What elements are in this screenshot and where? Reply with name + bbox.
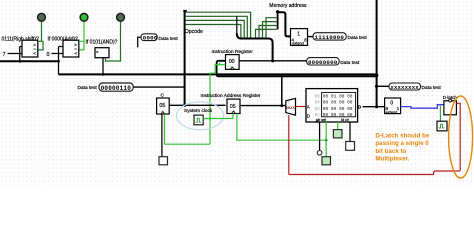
probe display 0000	[141, 34, 158, 42]
svg-text:D: D	[307, 113, 310, 118]
pin P4 (clr source square)	[346, 142, 355, 151]
highlight ellipse around system clock (light blue)	[177, 102, 224, 130]
wire comparator3 to bus	[102, 58, 104, 75]
node open ring on str wire	[317, 151, 322, 156]
wire RAM str pin down to ring	[319, 122, 321, 151]
bus opcode lower	[59, 73, 377, 75]
pin P2 (sel source, lit square)	[322, 157, 331, 165]
svg-text:MUX: MUX	[286, 105, 295, 110]
register IR	[226, 55, 240, 70]
wire opcode bit3	[186, 25, 241, 38]
svg-text:Opcode: Opcode	[185, 29, 203, 35]
wire RAM clr pin down	[349, 122, 351, 142]
svg-text:System clock: System clock	[184, 108, 213, 114]
node branch to probe xxxxxxxx	[375, 85, 378, 88]
node counter wire junction with opcode spine	[184, 104, 187, 107]
wire extender X2 to D-latch (blue, unknown value)	[401, 105, 444, 109]
LED L3 (off, dark)	[117, 13, 125, 21]
wire clock2 stub (green)	[439, 106, 441, 121]
svg-text:04: 04	[315, 101, 321, 106]
wire to probe xxxxxxxx	[377, 85, 389, 87]
wire comparator2 output loop (bright green)	[79, 41, 84, 50]
wire D-latch output feedback (red)	[289, 103, 460, 174]
svg-text:Data test: Data test	[348, 35, 368, 41]
wire 7 to comparator B	[8, 53, 23, 55]
wire staircase bit2	[263, 22, 277, 38]
wire counter C clock loop	[165, 114, 211, 144]
wire opcode bit0 (green bundle)	[186, 12, 251, 37]
svg-text:11110000: 11110000	[315, 34, 345, 41]
comparator U1	[22, 40, 38, 57]
node comparator1 bus junction	[18, 60, 21, 63]
svg-text:0: 0	[390, 101, 393, 107]
annotation text (orange)	[375, 133, 430, 163]
node MUX input junction	[280, 104, 283, 107]
node splitter bus to IR bus	[271, 59, 274, 62]
probe display 00000110	[99, 83, 133, 92]
svg-text:If 0101(AND)?: If 0101(AND)?	[86, 40, 118, 46]
svg-text:Data test: Data test	[159, 36, 179, 42]
splitter spine cap	[183, 10, 187, 12]
svg-text:o o o: o o o	[158, 109, 164, 112]
bus IR output to displays	[240, 60, 307, 62]
probe display 00000000	[307, 58, 340, 66]
svg-text:1: 1	[297, 32, 300, 38]
svg-text:00 00 00 00: 00 00 00 00	[323, 100, 353, 106]
counter IAR	[227, 99, 240, 113]
svg-text:str sel: str sel	[316, 118, 326, 122]
svg-text:0: 0	[47, 52, 50, 58]
wire comparator1 to LED1	[41, 22, 43, 42]
counter C	[157, 98, 170, 114]
bit extender X1 (4 to 8)	[291, 29, 308, 46]
comparator U3	[95, 48, 109, 58]
svg-text:ld clr: ld clr	[341, 118, 350, 122]
wire staircase bit1	[259, 26, 277, 38]
svg-text:extend: extend	[292, 42, 303, 46]
wire counter C bottom pin to pin square	[161, 114, 163, 157]
wire MUX output to RAM A (red)	[296, 106, 307, 108]
svg-text:passing a single 0: passing a single 0	[375, 140, 429, 147]
RAM M1	[306, 89, 358, 122]
svg-text:00000110: 00000110	[101, 85, 132, 92]
svg-text:xxxxxxxx: xxxxxxxx	[390, 84, 419, 91]
svg-text:Data test: Data test	[422, 85, 442, 91]
wire bus tap to comparator 1 A	[20, 47, 22, 62]
svg-text:Instruction Address Register: Instruction Address Register	[201, 93, 261, 99]
clock CLK2	[437, 121, 447, 131]
wire clock to IAR (bright green)	[203, 118, 233, 120]
LED L1 (off, dark)	[38, 13, 46, 21]
bit extender X2 (8 to 1)	[385, 98, 401, 114]
node comparator3 bus junction	[102, 73, 105, 76]
background canvas with grid dots	[0, 0, 474, 185]
wire opcode bit1	[186, 16, 248, 37]
bus splitter lower spine	[237, 33, 273, 61]
svg-text:bit back to: bit back to	[375, 148, 406, 155]
probe display 11110000	[313, 33, 346, 41]
wire MUX select (red, from D-latch feedback)	[288, 115, 290, 174]
node clock distribution junction	[209, 117, 212, 120]
multiplexer MUX1	[286, 98, 296, 115]
svg-text:Multiplexer.: Multiplexer.	[375, 156, 409, 163]
svg-text:o o: o o	[228, 64, 232, 68]
D-latch U4	[444, 99, 457, 115]
svg-text:00: 00	[315, 94, 321, 99]
svg-text:Data test: Data test	[340, 60, 360, 66]
wire probe0000 input	[138, 37, 141, 47]
svg-text:00000000: 00000000	[308, 59, 338, 66]
clock CLK1	[194, 115, 203, 125]
pin P3 (ld source, lit square)	[333, 130, 342, 138]
wire staircase bit0	[256, 29, 277, 37]
node splitter S2 top	[276, 10, 279, 13]
annotation ellipse (orange)	[449, 96, 473, 178]
svg-text:A: A	[307, 105, 310, 110]
wire IAR clock stub	[232, 114, 234, 119]
bus opcode upper	[0, 60, 59, 62]
wire bus riser to comparator2 A	[59, 47, 64, 75]
bus memory address to extender	[278, 12, 291, 36]
node lower bus right junction	[375, 74, 379, 78]
svg-text:05: 05	[159, 103, 165, 109]
svg-text:08: 08	[315, 107, 321, 112]
wire IAR output to MUX	[240, 105, 286, 107]
svg-text:1: 1	[218, 60, 221, 65]
splitter spine vertical (opcode)	[184, 11, 186, 105]
svg-text:D-Latch should be: D-Latch should be	[375, 133, 430, 140]
bus right vertical	[376, 0, 378, 107]
probe display xxxxxxxx	[389, 83, 421, 91]
node comparator2 bus junction	[57, 60, 60, 63]
LED L2 (on, bright green)	[80, 13, 88, 21]
wire RAM ld pin down (bright green short)	[337, 122, 339, 130]
wire IR clock input (bright green)	[210, 65, 226, 145]
svg-text:0: 0	[288, 100, 290, 104]
wire comparator2 to LED2	[83, 22, 85, 42]
svg-text:Data test: Data test	[78, 85, 98, 91]
bus IR data input L	[217, 61, 377, 77]
svg-text:0000: 0000	[143, 35, 158, 42]
wire comparator3 output loop to LED3	[105, 22, 120, 62]
wire counter C output	[169, 104, 225, 106]
wire branch to probe 00000110	[133, 86, 185, 88]
wire extender X1 to probe	[308, 36, 314, 38]
wire 0 to comparator2 B	[52, 53, 64, 55]
node sel clock junction	[325, 139, 328, 142]
node bus2 MUX branch junction	[280, 74, 283, 77]
wire bundle tap vertical	[236, 16, 238, 34]
node D-wire junction with right bus	[375, 105, 378, 108]
svg-text:00 00 00 00: 00 00 00 00	[323, 106, 353, 112]
wire clock branch down to RAM (bright green)	[237, 114, 326, 141]
wire RAM sel pin down (bright green)	[325, 122, 327, 157]
splitter S2 spine	[277, 12, 279, 29]
wire bus2 drop to MUX input	[281, 74, 283, 105]
pin P1 (input square)	[159, 157, 168, 165]
wire opcode bit2	[186, 20, 245, 37]
svg-text:extend: extend	[386, 110, 397, 114]
svg-text:00 01 00 00: 00 01 00 00	[323, 93, 353, 99]
comparator U2	[63, 40, 79, 57]
wire comparator1 output loop (dark green)	[38, 41, 43, 50]
svg-text:Memory address: Memory address	[269, 3, 307, 9]
svg-text:7: 7	[3, 52, 6, 58]
wire staircase bit3	[266, 18, 277, 38]
